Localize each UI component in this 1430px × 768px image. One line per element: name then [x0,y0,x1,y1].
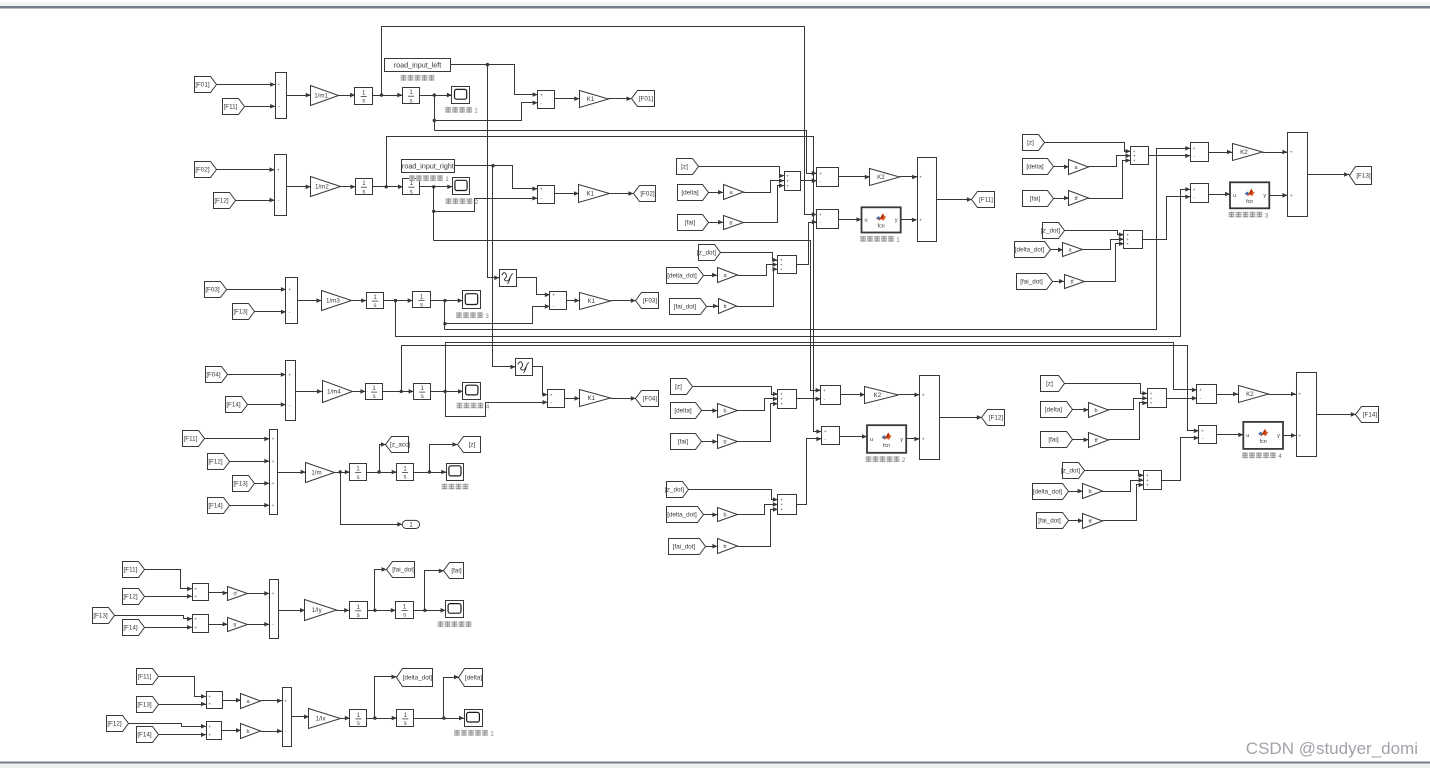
wire feedback row1 [433,96,436,131]
sum block row1 [276,73,287,119]
wire fai_dot to gain right2 [1069,518,1084,523]
wire diff sum to K2 mid1 [839,175,870,180]
svg-text:[F12]: [F12] [107,721,122,728]
svg-text:[fai]: [fai] [451,568,461,575]
from tag [F11] body [183,431,205,447]
integrator 1/s pitch b [396,602,414,619]
svg-text:[fai_dot]: [fai_dot] [673,544,696,551]
svg-text:+: + [819,172,822,177]
wire K1 to goto row3 [611,298,636,303]
diff sum upper right1 [1191,143,1209,162]
wire pitch sum1 to gain rf [209,591,228,596]
svg-text:b: b [1089,489,1092,495]
diff sum upper mid1 [817,168,839,187]
gain a roll [241,694,261,709]
svg-text:[fai_dot]: [fai_dot] [392,567,415,574]
svg-text:road_input_right: road_input_right [402,161,454,170]
wire F14 to roll sum2 [159,732,207,737]
from tag [fai] mid2 [671,434,702,450]
caption wheel disp 2 [446,198,479,206]
sum block row2 [275,155,287,216]
from tag [F14] [226,397,248,413]
svg-text:+: + [819,213,822,218]
from tag [z_dot] mid1 [697,245,720,261]
svg-text:3: 3 [485,313,489,320]
wire spring sum to diff sum mid1 [801,178,817,183]
wire road_input_right to sum [455,164,538,191]
svg-text:[delta_dot]: [delta_dot] [667,273,697,280]
gain a mid1 [724,185,744,200]
svg-text:s: s [403,613,406,619]
svg-text:road_input_left: road_input_left [394,61,442,70]
diff sum lower mid1 [817,210,839,229]
wire damp sum to diff sum right2 [1162,436,1199,481]
from tag [delta] mid1 [678,185,709,201]
wire 1/Ix to integrator [341,716,350,721]
gain b dot mid2 [718,508,738,522]
svg-text:[z_dot]: [z_dot] [1061,468,1080,475]
wire fai to gain tr mid1 [709,220,724,225]
wire fcn to mux right1 [1270,193,1288,198]
from tag [F02] [195,162,217,178]
gain 1/m3 [322,291,352,311]
svg-text:1/m1: 1/m1 [314,93,328,100]
gain K2 right1 [1233,144,1263,161]
goto tag [F11] [972,192,995,208]
from tag [fai] right2 [1041,432,1073,448]
svg-text:[F13]: [F13] [233,481,248,488]
wire spring sum to diff sum right1 [1149,154,1191,159]
svg-text:+: + [208,703,211,708]
integrator 1/s body a [350,464,367,481]
wire F11 to body sum [205,437,270,442]
wire fai to gain tr mid2 [702,439,718,444]
svg-text:+: + [780,508,783,513]
svg-text:K2: K2 [877,174,885,181]
wire diff sum lower to fcn right1 [1209,192,1231,197]
wire z_dot to damp sum right2 [1085,471,1144,478]
wire sum to K1 row1 [555,96,580,101]
fcn block damping 1 [862,207,901,232]
from tag [F01] [195,77,217,93]
goto tag [fai_dot] [387,562,415,578]
wire F12 to roll sum2 [129,724,207,729]
wire F12 to pitch sum1 [145,594,193,599]
mux block F14 [1297,373,1317,457]
svg-text:[F11]: [F11] [138,674,152,681]
wire F14 to body sum [230,503,270,508]
wire gain rf to mux [248,591,270,596]
svg-text:3: 3 [1265,213,1269,220]
svg-text:y: y [1277,433,1280,439]
from tag [F11] roll [137,669,159,685]
svg-text:s: s [421,394,424,400]
svg-text:K1: K1 [588,298,596,305]
svg-text:[F02]: [F02] [640,191,655,198]
wire sum4 to gain 1/m4 [296,389,323,394]
from tag [fai_dot] right2 [1037,513,1069,529]
wire z_dot to damp sum mid2 [689,490,778,502]
wire spring sum to diff sum mid2 [797,397,821,402]
wire road_left branch down to curve block [488,65,500,281]
integrator 1/s row2 b [403,179,420,196]
wire feedback row2 [432,187,435,241]
svg-text:s: s [420,303,423,309]
top toolbar band [0,3,1430,7]
from tag [F11] pitch [123,562,145,578]
svg-text:[F11]: [F11] [224,104,238,111]
svg-text:tf: tf [1095,438,1099,444]
svg-text:[F12]: [F12] [214,198,229,205]
wire delta to gain b right2 [1073,408,1089,413]
svg-text:[fai]: [fai] [678,439,688,446]
wire to goto z [430,442,458,472]
svg-text:[delta]: [delta] [681,190,698,197]
wire F11 to pitch sum1 [145,570,193,592]
wire [F02] to sum2 [217,167,275,172]
svg-text:+: + [540,188,543,193]
from tag [F12] pitch [123,589,145,605]
wire feedback row3 [443,301,446,330]
integrator 1/s body b [397,464,414,481]
svg-text:1/m4: 1/m4 [327,389,341,396]
from tag [z_dot] right2 [1061,463,1084,479]
svg-text:[F14]: [F14] [1363,412,1378,419]
caption damping nonlinear 2 [866,456,906,464]
svg-text:[F14]: [F14] [123,625,138,632]
svg-text:+: + [1290,194,1293,199]
wire gain a to mux roll [261,699,283,704]
gain tr dot mid1 [719,299,737,314]
wire diff sum to K2 mid2 [841,392,866,397]
wire [F13] to sum3 [255,310,286,315]
caption wheel disp 3 [456,312,489,320]
wire delta to gain a right1 [1054,165,1070,170]
scope block row1 [452,87,470,104]
gain a dot right1 [1063,243,1083,257]
svg-text:+: + [552,294,555,299]
gain K2 right2 [1239,386,1269,403]
from tag [F12] roll [107,716,129,732]
wire displacement2 long [434,241,821,393]
svg-text:s: s [374,303,377,309]
damping sum rect right2 [1144,471,1162,490]
integrator 1/s row1 a [355,88,373,105]
svg-text:y: y [900,437,903,443]
svg-text:s: s [357,721,360,727]
from tag [z] mid1 [677,159,699,175]
fcn block damping 3 [1230,182,1269,208]
gain tr pitch [228,618,248,632]
wire F11 to roll sum1 [159,677,207,699]
svg-text:[F11]: [F11] [184,436,198,443]
wire sum to K1 row4 [565,396,580,401]
svg-text:s: s [404,721,407,727]
svg-text:[F12]: [F12] [208,459,223,466]
from tag [F14] pitch [123,620,145,636]
svg-text:[z]: [z] [675,384,682,391]
wire integrators row1 [373,93,403,98]
gain tr mid1 [724,216,744,230]
svg-text:+: + [284,700,287,705]
svg-text:[delta_dot]: [delta_dot] [1033,489,1063,496]
svg-text:[delta]: [delta] [674,408,691,415]
gain tf dot right2 [1083,514,1103,529]
svg-text:s: s [357,613,360,619]
from tag [F13] body [233,476,255,492]
svg-text:+: + [272,460,275,465]
wire sum to K1 row2 [555,191,580,196]
svg-text:+: + [194,626,197,631]
svg-text:s: s [410,99,413,105]
from tag [delta_dot] right1 [1015,242,1051,258]
svg-text:[F02]: [F02] [195,167,210,174]
svg-text:+: + [919,219,922,224]
svg-text:+: + [1290,151,1293,156]
integrator 1/s roll a [350,710,367,728]
gain tf dot right1 [1065,275,1085,289]
svg-text:1: 1 [445,176,449,183]
wire F13 to body sum [255,481,270,486]
wire gain tf dot to damp sum right2 [1103,483,1144,521]
goto tag [z] [458,437,481,453]
sum block K1 row4 [548,390,565,408]
wire diff sum to K2 right2 [1217,392,1239,397]
gain rf pitch [228,587,248,601]
wire gain tr dot to damp sum mid1 [737,267,778,307]
svg-text:+: + [922,438,925,443]
wire K2 to mux mid1 [900,175,918,180]
wire [F01] to sum1 [217,82,276,87]
goto tag [F02] [634,186,656,202]
svg-text:u: u [864,218,867,224]
wire gain tf dot to damp sum right1 [1085,241,1124,281]
svg-text:K1: K1 [587,191,595,198]
svg-text:+: + [1298,434,1301,439]
damping sum rect mid2 [778,495,797,515]
svg-text:tf: tf [1075,196,1079,202]
wire velocity3 long [396,187,1191,337]
sum square roll 1 [207,692,223,709]
svg-text:+: + [780,268,783,273]
gain K1 row3 [580,293,611,310]
svg-text:1/m3: 1/m3 [326,298,340,305]
svg-text:s: s [357,475,360,481]
svg-text:y: y [895,218,898,224]
svg-text:u: u [870,437,873,443]
goto tag [z_acc] [386,437,411,453]
gain b roll [241,724,261,739]
from tag [delta_dot] right2 [1033,484,1069,500]
wire integrators row3 [384,298,413,303]
wire gain tr to spring sum mid1 [744,183,785,222]
svg-text:K2: K2 [874,392,882,399]
wire gain tf to spring sum right2 [1109,401,1148,440]
svg-text:tr: tr [723,544,727,550]
from tag [delta] right1 [1023,159,1054,175]
from tag [fai_dot] mid2 [669,539,706,555]
gain K2 mid1 [870,169,900,186]
svg-text:fcn: fcn [877,224,884,230]
road_input_right block [402,160,455,173]
wire gain a dot to damp sum mid1 [738,262,778,275]
sum square pitch 2 [193,615,209,633]
wire F13 to pitch sum2 [115,616,193,622]
wire [F04] to sum4 [228,372,286,377]
wire fai to gain tf right1 [1054,196,1070,201]
from tag [fai] mid1 [678,215,709,231]
svg-text:b: b [247,729,250,735]
sum block body [270,430,278,515]
wire delta_dot to gain right1 [1051,248,1064,253]
svg-text:+: + [272,438,275,443]
gain 1/Iy [305,600,337,621]
svg-text:rf: rf [233,592,237,598]
svg-text:tr: tr [233,623,237,629]
wire pitch integrators [368,608,396,613]
from tag [F11] [223,99,245,115]
from tag [F13] [233,304,255,320]
svg-text:[delta]: [delta] [1045,407,1062,414]
svg-text:K1: K1 [587,96,595,103]
svg-text:+: + [288,373,291,378]
svg-text:[z_dot]: [z_dot] [697,250,716,257]
sum block row4 [286,361,296,421]
wire K2 to mux right2 [1269,392,1297,397]
from tag [z] mid2 [671,379,693,395]
svg-text:+: + [823,389,826,394]
svg-text:s: s [362,189,365,195]
svg-text:[z_dot]: [z_dot] [1041,228,1060,235]
sum square roll 2 [207,722,222,740]
wire to goto delta [444,675,460,719]
wire gain b to spring sum mid2 [738,397,778,411]
svg-text:+: + [922,394,925,399]
gain b right2 [1089,403,1109,418]
svg-text:2: 2 [475,199,479,206]
wire diff sum lower to fcn mid1 [839,217,862,222]
wire fcn to mux mid1 [901,218,917,223]
svg-text:+: + [277,168,280,173]
scope block body [447,464,464,481]
wire damp sum to diff sum mid1 [797,220,817,265]
watermark CSDN [1246,739,1418,758]
svg-text:+: + [194,588,197,593]
sum block K1 row1 [538,91,555,109]
diff sum lower right1 [1191,184,1209,203]
svg-text:CSDN @studyer_domi: CSDN @studyer_domi [1246,739,1418,758]
svg-text:4: 4 [486,403,490,410]
goto tag [delta_dot] [397,669,433,687]
integrator 1/s row4 b [414,384,431,401]
mux block F12 [920,376,940,460]
wire delta to gain b mid2 [702,408,718,413]
svg-text:[delta_dot]: [delta_dot] [1015,247,1045,254]
svg-text:[fai_dot]: [fai_dot] [674,304,697,311]
caption road roughness right [409,175,449,183]
scope block pitch [446,601,464,618]
wire K2 to mux right1 [1263,150,1288,155]
svg-text:+: + [1133,159,1136,164]
svg-text:s: s [410,189,413,195]
wire gain tr to spring sum mid2 [738,402,778,442]
gain a dot mid1 [718,268,738,283]
svg-text:[fai]: [fai] [1048,437,1058,444]
wire [F14] to sum4 [248,402,286,407]
integrator 1/s row3 a [367,293,384,310]
wire [F03] to sum3 [227,287,286,292]
wire F12 to body sum [230,459,270,464]
svg-text:tf: tf [1089,519,1093,525]
gain tf right2 [1089,433,1109,448]
from tag [F04] [206,367,228,383]
gain K1 row1 [580,91,609,108]
svg-text:tr: tr [729,221,733,227]
scope block row2 [453,178,470,195]
gain 1/m1 [311,86,339,106]
integrator 1/s row1 b [403,88,420,105]
svg-text:[F01]: [F01] [195,82,210,89]
lookup curve block row3 [500,270,517,287]
svg-text:[delta]: [delta] [1026,164,1043,171]
svg-text:y: y [1263,193,1266,199]
wire 1/Iy to integrator [337,608,350,613]
wire fai_dot to gain mid2 [706,544,718,549]
svg-text:+: + [1193,188,1196,193]
wire gain rr to mux [248,622,270,627]
wire feedback row4 to sum minus [446,392,548,417]
gain tr mid2 [718,435,738,449]
svg-text:+: + [540,93,543,98]
wire velocity2 long [387,137,822,434]
integrator 1/s row3 b [413,292,431,309]
diff sum upper right2 [1197,385,1217,404]
svg-text:[delta]: [delta] [465,675,482,682]
svg-text:+: + [780,403,783,408]
wire diff sum lower to fcn right2 [1217,433,1244,438]
from tag [F13] pitch [93,608,115,624]
svg-text:+: + [824,430,827,435]
caption road roughness left [401,75,435,81]
wire pitch sum2 to gain rr [209,622,228,627]
road_input_left block [385,59,451,72]
caption wheel disp 4 [457,403,490,411]
wire gain to integrator row1 [339,93,356,98]
wire damp sum to diff sum right1 [1143,195,1191,240]
wire roll integrator to scope [414,716,465,721]
svg-text:[delta_dot]: [delta_dot] [667,512,697,519]
from tag [F13] roll [137,697,159,713]
svg-text:fcn: fcn [1260,439,1267,445]
svg-text:[F13]: [F13] [1356,173,1371,180]
wire to goto z_acc [380,442,386,472]
gain K1 row2 [579,185,610,203]
wire damp sum to diff sum mid2 [797,437,822,505]
wire to goto delta_dot [375,675,397,719]
integrator 1/s pitch a [350,602,368,620]
wire fai_dot to gain right1 [1053,279,1065,284]
svg-text:4: 4 [1278,453,1282,460]
svg-text:[F12]: [F12] [989,415,1004,422]
wire sum3 to gain 1/m3 [298,298,322,303]
integrator 1/s row2 a [356,179,373,196]
integrator 1/s roll b [397,710,414,728]
from tag [F03] [205,282,227,298]
svg-text:+: + [1150,402,1153,407]
svg-text:[fai]: [fai] [685,220,695,227]
wire fcn to mux right2 [1283,433,1297,438]
gain K2 mid2 [865,387,899,404]
